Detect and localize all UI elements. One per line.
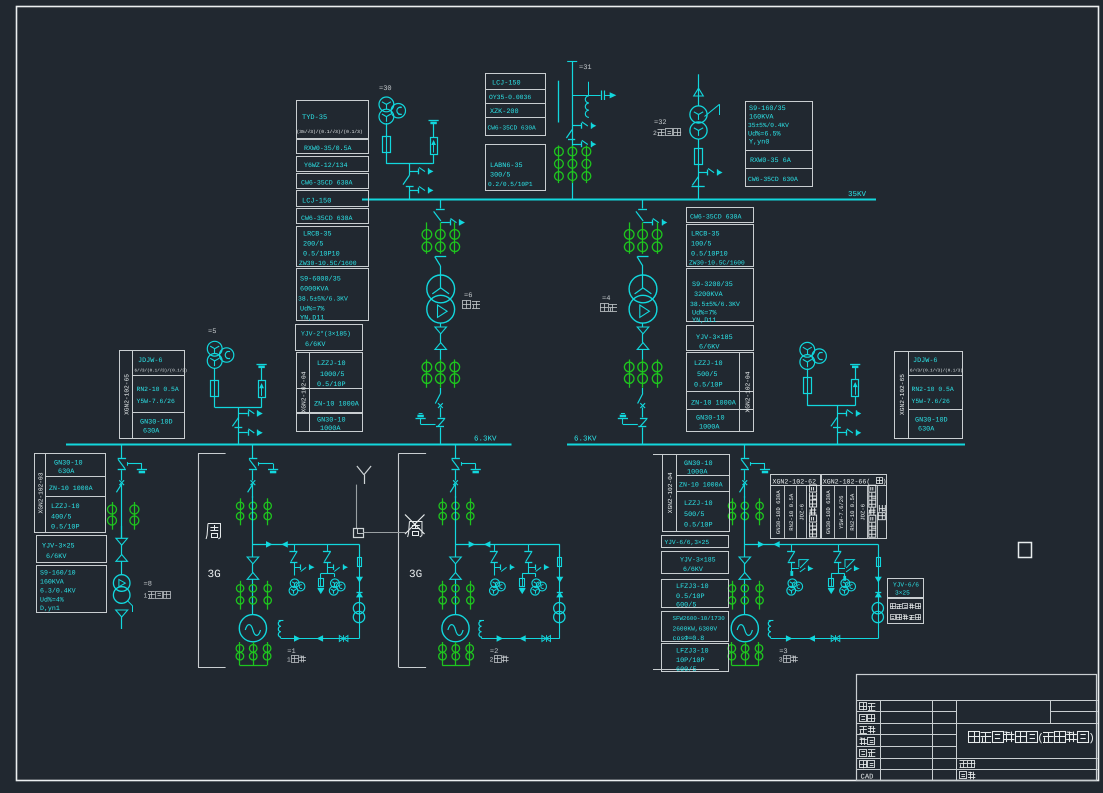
drawout indicator 1 =3 (792, 568, 799, 570)
ground (earthing) =8 (137, 469, 147, 471)
svg-text:=5: =5 (208, 328, 216, 336)
generator neutral bar =2 (442, 665, 470, 667)
svg-text:S9-6000/35: S9-6000/35 (300, 276, 341, 284)
generator G =1 (239, 615, 266, 642)
arrow right low =1 (294, 636, 299, 641)
label zhou 2 with cross (408, 521, 410, 536)
table =3 equipment column (653, 454, 729, 456)
blade low =6 (435, 394, 440, 404)
generator G =2 (442, 615, 469, 642)
arrow right low =3 (786, 636, 791, 641)
bus 6.3KV right (567, 444, 965, 446)
svg-text:XGN2-102-04: XGN2-102-04 (667, 472, 674, 513)
branch fuse =2 (520, 579, 525, 587)
svg-text:0.5/10P: 0.5/10P (694, 382, 723, 390)
disconnector =7 lower (837, 432, 846, 434)
svg-text:YJV-2*(3×185): YJV-2*(3×185) (301, 331, 351, 338)
svg-text:Y6WZ-12/134: Y6WZ-12/134 (304, 162, 348, 169)
branch T split =1 (327, 563, 329, 574)
wire (121, 545, 123, 555)
arrester F =30 (431, 138, 438, 155)
arrow termination =8 (116, 610, 128, 617)
blade =30 (403, 175, 409, 184)
svg-text:CW6-35CD 630A: CW6-35CD 630A (690, 214, 741, 221)
svg-text:Y5W-7.6/26: Y5W-7.6/26 (838, 495, 845, 529)
svg-text:=30: =30 (379, 85, 392, 93)
breaker mark =4 (640, 403, 645, 408)
fuse excitation =1 (358, 558, 362, 567)
CT group =31 (3x3) (558, 146, 560, 184)
wire =1 (252, 496, 254, 557)
svg-text:RN2-10 0.5A: RN2-10 0.5A (137, 386, 179, 393)
wire =3 (744, 579, 746, 614)
svg-text:RN2-10 0.5A: RN2-10 0.5A (788, 493, 795, 531)
PT cluster 2 =1 (331, 579, 340, 588)
cable termination up =2 (450, 573, 462, 580)
blade mid =2 (450, 484, 455, 492)
title block row labels (860, 703, 867, 710)
svg-text:YJV-6/6: YJV-6/6 (893, 582, 919, 589)
wire coil =1 (280, 637, 282, 639)
blade =32 (692, 177, 698, 186)
wire =1 (252, 579, 254, 614)
table JDJW-6 right (895, 352, 963, 439)
svg-text:cosΦ=0.8: cosΦ=0.8 (673, 635, 705, 642)
plug contact 2 =3 (843, 576, 846, 581)
PT =5 (207, 341, 222, 356)
disconnector QS Z =1 (249, 458, 257, 460)
field coil =2 (479, 620, 484, 622)
CT group lower =1 (240, 581, 242, 610)
disconnector QS Z =2 (452, 458, 460, 460)
wire =2 (455, 470, 457, 480)
wire =1 (252, 485, 254, 499)
reference square (1019, 543, 1032, 558)
disconnector QS =6 (436, 209, 445, 211)
ground (earthing) =1 (268, 469, 278, 471)
fuse FU =7 (804, 378, 812, 394)
blade =31 (566, 130, 572, 139)
svg-text:YN,D11: YN,D11 (692, 317, 716, 325)
wire =2 (455, 496, 457, 557)
PT cluster 2 =3 (841, 579, 850, 588)
svg-text:3×25: 3×25 (895, 590, 910, 597)
wire T=32 to fuse (698, 139, 700, 148)
svg-text:2: 2 (490, 657, 494, 664)
svg-text:GN30-10D: GN30-10D (915, 417, 948, 425)
arrow right =2 (469, 542, 474, 547)
branch fuse =1 (319, 579, 324, 587)
wire bus to QS =1 (252, 444, 254, 458)
svg-text:1000A: 1000A (687, 469, 708, 477)
ground (arrester =5) (257, 364, 267, 366)
wire excitation =2 (559, 544, 561, 557)
svg-text:160KVA: 160KVA (749, 114, 774, 122)
svg-text:3G: 3G (208, 569, 221, 581)
blade mid =3 (740, 484, 745, 492)
title text (969, 732, 980, 743)
wire bus to QS =3 (744, 444, 746, 458)
svg-text:=8: =8 (144, 581, 152, 589)
PT cluster 2 =2 (532, 579, 541, 588)
svg-text:GN30-10: GN30-10 (696, 415, 725, 423)
earthing arm =4 (623, 424, 638, 426)
svg-text:RN2-10 0.5A: RN2-10 0.5A (849, 493, 856, 531)
branch fuse-switch 2 =2 (528, 544, 530, 551)
bowtie switch =3 (831, 636, 835, 642)
svg-text:YJV-6/6,3×25: YJV-6/6,3×25 (665, 539, 710, 546)
wire bus to QS =8 (121, 444, 123, 458)
svg-text:200/5: 200/5 (303, 241, 323, 249)
label zhou 1 (206, 523, 208, 538)
ground (earthing) =4 (618, 418, 628, 420)
earthing arm =6 (421, 424, 436, 426)
svg-text:Y5W-7.6/26: Y5W-7.6/26 (137, 398, 176, 405)
svg-text:0.5/10P10: 0.5/10P10 (303, 251, 340, 259)
svg-text:35KV: 35KV (848, 190, 867, 199)
svg-text:GN30-10: GN30-10 (684, 460, 713, 468)
arrow junction =1 (357, 592, 363, 594)
svg-text:Ud%=7%: Ud%=7% (300, 306, 325, 314)
ground (earthing) =3 (760, 469, 770, 471)
earthing arm =2 (461, 462, 463, 466)
drawout indicator 1 =2 (495, 567, 501, 569)
table =6 equipment column (297, 191, 369, 207)
tap changer arrow =32 (705, 104, 720, 116)
wave trap coil =31 (585, 96, 589, 118)
svg-text:LRCB-35: LRCB-35 (303, 231, 332, 239)
bowtie switch =2 (542, 636, 546, 642)
wire stub =8 (121, 617, 123, 629)
earthing switch =6 (438, 418, 446, 420)
fuse FU =30 (383, 137, 391, 153)
arrow down excitation =1 (357, 577, 363, 582)
svg-text:): ) (1088, 733, 1095, 745)
PT cluster 1 =2 (491, 579, 500, 588)
wire to cable =6 (440, 323, 442, 327)
cable termination up =3 (739, 573, 751, 580)
disconnector =31 upper (572, 125, 581, 127)
svg-text:XGN2-102-65: XGN2-102-65 (124, 374, 131, 415)
wire node down (238, 408, 240, 444)
cable termination down =2 (450, 557, 462, 564)
svg-text:100/5: 100/5 (691, 241, 711, 249)
arrow right low =2 (497, 636, 502, 641)
blade mid =1 (248, 484, 253, 492)
svg-text:CW6-35CD 630A: CW6-35CD 630A (301, 215, 352, 222)
table =30 equipment (297, 101, 369, 139)
CT group output =2 (442, 642, 444, 665)
wire =1 (252, 470, 254, 480)
svg-text:LABN6-35: LABN6-35 (490, 162, 523, 170)
breaker mark =3 (742, 480, 747, 485)
ground (arrester =30) (429, 120, 439, 122)
PT cluster 1 =1 (290, 579, 299, 588)
svg-text:): ) (883, 479, 887, 486)
wire excitation =1 (359, 544, 361, 557)
note box cable =3 (888, 579, 924, 598)
wire to node (214, 397, 216, 408)
wire node down (837, 406, 839, 444)
wire arrester to node (855, 397, 857, 406)
wire arrester to node (433, 155, 435, 164)
wire incoming =31 (572, 61, 574, 200)
drawout indicator 2 =3 (838, 568, 845, 570)
svg-text:GN30-10D 630A: GN30-10D 630A (825, 490, 832, 534)
node junction wire =3 (745, 544, 879, 546)
table JDJW-6 left (120, 351, 185, 439)
CT group lower =3 (732, 581, 734, 610)
svg-text:YN,D11: YN,D11 (300, 315, 324, 323)
wire bus to QS =6 (440, 200, 442, 209)
wire =8 through CT (121, 498, 123, 538)
svg-text:6.3KV: 6.3KV (474, 435, 497, 444)
wire (698, 164, 700, 200)
CT group upper =1 (240, 498, 242, 525)
CT group lower =4 (629, 360, 631, 388)
title block grid (857, 675, 1097, 781)
wire =2 (455, 485, 457, 499)
svg-text:1000/5: 1000/5 (320, 371, 344, 379)
svg-text:6000KVA: 6000KVA (300, 286, 329, 294)
generator G =3 (731, 615, 758, 642)
wire to T=8 (121, 561, 123, 575)
svg-text:500/5: 500/5 (684, 511, 704, 519)
arrow left =1 (282, 542, 287, 547)
CT group lower =2 (442, 581, 444, 610)
bowtie switch =1 (339, 636, 343, 642)
cable termination up =1 (247, 573, 259, 580)
earthing switch indicator =6 (441, 222, 450, 224)
svg-text:XGN2-102-03: XGN2-102-03 (37, 472, 44, 513)
wire =2 (455, 579, 457, 614)
CT group output =3 (731, 642, 733, 665)
wire box to group 2 (363, 532, 406, 534)
svg-text:=6: =6 (464, 292, 472, 300)
svg-text:630A: 630A (58, 468, 75, 476)
arrow left low =2 (520, 636, 525, 641)
ground (arrester =7) (850, 364, 860, 366)
disconnector QS Z =3 (741, 458, 749, 460)
svg-text:3G: 3G (409, 569, 422, 581)
wire PT=30 to fuse (386, 123, 388, 136)
drawout indicator 2 =2 (529, 567, 535, 569)
branch fuse-switch 1 =1 (294, 544, 296, 551)
svg-text:S9-160/10: S9-160/10 (40, 570, 76, 577)
wire node to disconnector (409, 164, 411, 176)
svg-text:YJV-3×185: YJV-3×185 (680, 557, 716, 564)
wire arrester to node (261, 398, 263, 408)
svg-text:10P/10P: 10P/10P (676, 657, 705, 665)
earthing switch =4 (640, 418, 648, 420)
svg-text:2: 2 (653, 130, 657, 137)
excitation transformer =2 (554, 603, 565, 614)
fuse excitation =2 (558, 558, 562, 567)
svg-text:XGN2-102-04: XGN2-102-04 (301, 371, 308, 412)
wire =1 (252, 564, 254, 573)
cable termination up =6 (435, 343, 447, 350)
wire =3 (744, 485, 746, 499)
fuse FU =5 (211, 381, 219, 397)
svg-text:JDZ-6: JDZ-6 (859, 504, 866, 521)
svg-text:YJV-3×25: YJV-3×25 (42, 543, 75, 551)
blade =7 (831, 417, 837, 426)
svg-text:3200KVA: 3200KVA (694, 291, 723, 299)
wire top =32 (698, 74, 700, 106)
generator neutral bar =1 (240, 665, 268, 667)
svg-text:XZK-200: XZK-200 (490, 108, 519, 116)
drawout indicator 2 =1 (328, 567, 334, 569)
wire to 35KV bus (409, 187, 411, 200)
wire PT=7 to fuse (807, 369, 809, 378)
arrow down excitation =3 (876, 577, 882, 582)
branch fuse-switch 1 =2 (494, 544, 496, 551)
svg-text:500/5: 500/5 (697, 371, 717, 379)
svg-text:630A: 630A (143, 428, 160, 436)
svg-text:GN30-10D 630A: GN30-10D 630A (775, 490, 782, 534)
wire to node (807, 393, 809, 406)
svg-text:LFZJ3-10: LFZJ3-10 (676, 583, 709, 591)
arrow left =3 (774, 542, 779, 547)
breaker mark =6 (438, 403, 443, 408)
bus 6.3KV left (66, 444, 512, 446)
svg-text:35±5%/0.4KV: 35±5%/0.4KV (748, 122, 789, 129)
earthing arm =3 (750, 462, 752, 466)
excitation transformer =3 (872, 603, 883, 614)
cable termination down =6 (435, 327, 447, 334)
wire arrester top (855, 366, 857, 380)
wire =3 (744, 564, 746, 573)
svg-text:400/5: 400/5 (51, 514, 71, 522)
excitation transformer =1 (353, 603, 364, 614)
svg-text:1: 1 (144, 593, 148, 600)
wire arrester top (261, 366, 263, 381)
svg-text:LZZJ-10: LZZJ-10 (317, 360, 346, 368)
svg-text:6/6KV: 6/6KV (305, 341, 326, 349)
svg-text:(: ( (1037, 733, 1044, 745)
svg-text:D,yn1: D,yn1 (40, 605, 60, 612)
svg-text:38.5±5%/6.3KV: 38.5±5%/6.3KV (690, 301, 740, 308)
svg-text:6.3/0.4KV: 6.3/0.4KV (40, 588, 76, 595)
svg-text:1000A: 1000A (699, 424, 720, 432)
svg-text:1000A: 1000A (320, 425, 341, 433)
disconnector QS =30 lower (409, 190, 418, 192)
wire =4 (642, 349, 644, 360)
cable termination down =8 (116, 538, 128, 545)
wire =3 (744, 496, 746, 557)
cable termination down =3 (739, 557, 751, 564)
svg-text:RN2-10 0.5A: RN2-10 0.5A (912, 386, 954, 393)
svg-text:LZZJ-10: LZZJ-10 (684, 500, 713, 508)
svg-text:LZZJ-10: LZZJ-10 (51, 503, 80, 511)
svg-text:6.3KV: 6.3KV (574, 435, 597, 444)
arrow left =2 (485, 542, 490, 547)
arrester F =5 (259, 381, 266, 398)
svg-text:(35/√3)/(0.1/√3)/(0.1/3): (35/√3)/(0.1/√3)/(0.1/3) (297, 129, 363, 135)
wire bus to QS =2 (455, 444, 457, 458)
table =8 equipment (35, 454, 106, 533)
svg-text:SFW2600-10/1730: SFW2600-10/1730 (673, 615, 726, 622)
CT group =8 (112, 502, 114, 530)
svg-text:JDJW-6: JDJW-6 (913, 357, 937, 365)
blade =5 (238, 416, 240, 419)
svg-text:Ud%=4%: Ud%=4% (40, 597, 64, 604)
CT group upper =2 (442, 498, 444, 525)
disconnector =32 (699, 172, 708, 174)
plug contact 1 =3 (790, 571, 793, 576)
svg-text:3: 3 (779, 657, 783, 664)
svg-text:RXW0-35/0.5A: RXW0-35/0.5A (304, 145, 352, 152)
transformer T =32 (S9-160/35) (690, 106, 707, 123)
earthing arm =1 (258, 462, 260, 466)
breaker mark =8 (119, 480, 124, 485)
disconnector QS =30 upper (409, 171, 418, 173)
branch T split =2 (528, 563, 530, 574)
svg-text:S9-3200/35: S9-3200/35 (692, 281, 733, 289)
wire PT=5 to fuse (214, 369, 216, 382)
CT group upper =4 (629, 222, 631, 253)
svg-text:600/5: 600/5 (676, 666, 696, 674)
svg-text:0.2/0.5/10P1: 0.2/0.5/10P1 (488, 181, 533, 188)
junction box (354, 529, 364, 538)
cable termination down =1 (247, 557, 259, 564)
transformer 2-winding =6 (427, 275, 455, 303)
wire antenna to box (356, 485, 358, 529)
svg-text:CW6-35CD 630A: CW6-35CD 630A (301, 180, 352, 187)
wire =6 (440, 334, 442, 343)
wire =2 (455, 564, 457, 573)
svg-text:TYD-35: TYD-35 (302, 114, 327, 122)
svg-text:6/6KV: 6/6KV (46, 553, 67, 561)
svg-text:=2: =2 (490, 648, 498, 656)
svg-text:ZW30-10.5C/1600: ZW30-10.5C/1600 (299, 260, 357, 267)
svg-text:XGN2-102-66(: XGN2-102-66( (823, 479, 870, 486)
svg-text:Y5W-7.6/26: Y5W-7.6/26 (912, 398, 951, 405)
CT group upper =6 (426, 222, 428, 253)
table =31 equipment (486, 74, 546, 136)
bus 35KV (362, 199, 876, 201)
disconnector =7 upper (837, 413, 846, 415)
svg-text:CAD: CAD (861, 774, 874, 782)
table XGN2-102-62 (771, 475, 821, 539)
disconnector =5 upper (239, 413, 248, 415)
arrester F =7 (852, 380, 859, 397)
wire =8 (121, 526, 123, 538)
PT =7 (800, 342, 815, 357)
svg-text:=1: =1 (287, 648, 295, 656)
svg-text:YJV-3×185: YJV-3×185 (696, 334, 733, 342)
line trap branch =31 (588, 82, 590, 96)
arrow right =1 (266, 542, 271, 547)
CT group upper =3 (732, 498, 734, 525)
svg-text:160KVA: 160KVA (40, 579, 64, 586)
svg-text:CW6-35CD 630A: CW6-35CD 630A (488, 125, 537, 132)
arrow right =3 (758, 542, 763, 547)
wire to cable =4 (642, 323, 644, 327)
svg-text:ZN-10 1000A: ZN-10 1000A (314, 401, 360, 409)
svg-text:630A: 630A (918, 426, 935, 434)
svg-text:JDZ-6: JDZ-6 (799, 504, 806, 521)
antenna symbol (364, 475, 366, 484)
wire =4 (642, 334, 644, 343)
fuse excitation =3 (877, 558, 881, 567)
field coil =1 (279, 620, 284, 622)
svg-text:OY35-0.0036: OY35-0.0036 (489, 94, 531, 101)
svg-text:RXW0-35 6A: RXW0-35 6A (750, 157, 792, 165)
table XGN2-102-66 (822, 475, 887, 539)
wire coil =3 (770, 637, 772, 639)
svg-text:XGN2-102-65: XGN2-102-65 (899, 374, 906, 415)
